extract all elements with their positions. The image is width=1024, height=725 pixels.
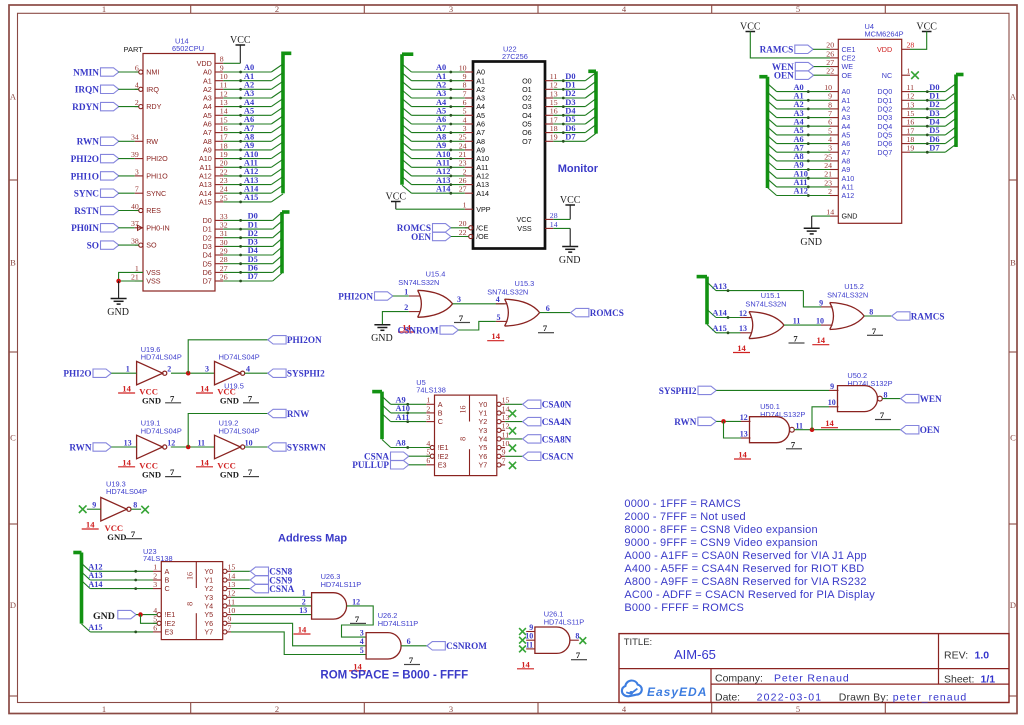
svg-text:11: 11 [796,421,804,430]
svg-text:24: 24 [220,185,228,194]
flag CSNA at U5 [364,452,430,462]
svg-text:DQ7: DQ7 [877,148,892,157]
svg-text:9: 9 [830,382,834,391]
wire A13 cpu [223,184,271,186]
svg-text:11: 11 [220,81,228,90]
svg-text:Sheet:: Sheet: [944,673,974,685]
svg-text:DQ4: DQ4 [877,122,892,131]
wire U15.1 out to U15.2 pin10 [784,324,821,326]
svg-text:U19.6: U19.6 [141,345,161,354]
svg-text:GND: GND [220,396,239,406]
wire SO [118,244,138,246]
svg-text:6: 6 [426,456,430,465]
wire D5 cpu [223,263,272,265]
svg-text:PHI2ON: PHI2ON [338,291,373,301]
wire A1 cpu [223,80,271,82]
svg-text:1.0: 1.0 [975,649,990,661]
svg-text:A400 - A5FF = CSA4N Reserved f: A400 - A5FF = CSA4N Reserved for RIOT KB… [624,563,864,575]
wire A0 u4 [768,84,777,92]
U5 outputs Y0-Y7 [505,400,574,469]
flag CSA0N out [523,400,541,408]
flag PULLUP at U5 [352,460,426,470]
wire A12 u23 [82,563,91,571]
svg-text:11: 11 [526,640,534,649]
SRAM U4 MCM6264P [824,22,914,223]
svg-text:9: 9 [819,298,823,307]
decoder U23 74LS138 [143,547,235,639]
svg-text:A15: A15 [712,324,726,333]
svg-text:6: 6 [463,98,467,107]
svg-text:38: 38 [131,237,139,246]
flag RNW out [268,409,286,417]
wire RWN to U19.1 [111,446,136,448]
svg-text:Address Map: Address Map [278,533,347,545]
svg-text:D4: D4 [565,107,576,116]
no-connect X at U5 Y3 [509,427,516,434]
wire RAMCS to CE1 [813,48,830,50]
svg-text:SYSPHI2: SYSPHI2 [287,369,325,379]
svg-text:A10: A10 [794,169,808,178]
svg-text:13: 13 [124,438,132,447]
svg-text:8: 8 [575,632,579,641]
svg-text:PHI2O: PHI2O [63,369,91,379]
svg-text:DQ5: DQ5 [877,131,892,140]
svg-text:HD74LS11P: HD74LS11P [544,618,585,627]
svg-text:A7: A7 [203,128,212,137]
bus A12-A15 at U23 [73,553,153,634]
svg-text:1: 1 [153,563,157,572]
svg-text:SO: SO [87,242,99,252]
svg-text:A4: A4 [203,102,212,111]
wire U19.1 out to U19.2 in [171,446,215,448]
wire WEN to WE [814,66,830,68]
svg-text:Y4: Y4 [479,435,488,444]
wire A11 [382,414,391,422]
wire A9 u22 [402,142,412,150]
data bus D0-D7 at U14 [223,212,289,283]
wire D0 u4 [910,91,945,93]
svg-text:74LS138: 74LS138 [416,386,446,395]
svg-text:10: 10 [459,63,467,72]
wire D7 u22 [553,140,585,142]
wire A4 u4 [768,118,777,126]
svg-text:Company:: Company: [715,672,763,684]
svg-text:A4: A4 [476,102,485,111]
wire A12 u4 [768,188,777,196]
svg-text:10: 10 [525,632,533,641]
wire D5 u22 [553,123,585,125]
svg-text:TITLE:: TITLE: [624,637,653,648]
svg-text:A0: A0 [476,68,485,77]
svg-text:3: 3 [360,629,364,638]
svg-text:A800 - A9FF = CSA8N Reserved f: A800 - A9FF = CSA8N Reserved for VIA RS2… [624,576,866,588]
CPU U14 6502CPU [131,37,228,292]
svg-text:RWN: RWN [69,442,91,452]
wire D4 cpu [223,254,272,256]
svg-text:10: 10 [228,606,236,615]
wire A11 cpu [223,166,271,168]
wire VPP [396,208,465,210]
svg-text:GND: GND [800,237,822,248]
svg-text:29: 29 [220,246,228,255]
svg-text:4: 4 [246,365,250,374]
svg-text:D0: D0 [929,83,939,92]
wire PHI1O [118,175,134,177]
bus A8-A11 at U5 [372,392,430,449]
svg-text:A2: A2 [436,81,446,90]
svg-text:40: 40 [131,202,139,211]
svg-text:9: 9 [529,623,533,632]
flag WEN out [901,394,919,402]
svg-text:14: 14 [738,450,747,460]
svg-text:3: 3 [153,580,157,589]
svg-text:CSA8N: CSA8N [542,434,572,444]
svg-text:A12: A12 [476,172,489,181]
svg-text:4: 4 [135,81,139,90]
svg-text:VDD: VDD [877,45,892,54]
svg-text:D4: D4 [248,246,259,255]
svg-text:E3: E3 [438,460,447,469]
wire A13 [707,282,716,291]
svg-text:RNW: RNW [287,409,310,419]
wire PULLUP to E3 [409,464,426,466]
svg-text:7: 7 [248,393,253,403]
svg-text:VPP: VPP [476,205,491,214]
svg-text:13: 13 [739,324,747,333]
svg-text:D5: D5 [203,259,212,268]
svg-text:21: 21 [824,170,832,179]
svg-text:8: 8 [828,100,832,109]
svg-text:3: 3 [426,413,430,422]
svg-text:7: 7 [543,323,548,333]
svg-text:SN74LS32N: SN74LS32N [398,278,439,287]
svg-text:RES: RES [146,206,161,215]
svg-text:A9: A9 [794,161,804,170]
wire SYSPHI2 to pin9 [716,389,829,391]
wire CSNROM to pin5 [458,321,496,330]
wire A13 to U15.2 pin9 [803,291,821,307]
svg-text:26: 26 [826,49,834,58]
wire A14 cpu [223,192,271,194]
data bus at U4 [910,75,964,154]
svg-text:B: B [10,258,16,268]
svg-text:D7: D7 [929,143,939,152]
svg-text:7: 7 [459,313,464,323]
wire A15 [707,324,716,333]
junction GND U23 [138,612,143,617]
wire junction to PHI2ON flag [188,340,268,373]
wire A15 u23 [82,624,91,632]
wire NMIN [118,71,138,73]
svg-text:A12: A12 [244,167,258,176]
wire A14 u23 [82,581,91,589]
GND at U15.4 pin2 [371,312,409,345]
svg-text:1: 1 [102,704,106,714]
svg-text:15: 15 [502,396,510,405]
svg-text:OEN: OEN [920,425,940,435]
svg-text:PH0-IN: PH0-IN [146,223,170,232]
flag ROMCS at U22 [397,223,469,233]
wire RWN to pin13 [724,421,742,438]
svg-text:14: 14 [86,520,95,530]
svg-text:GND: GND [142,469,161,479]
svg-text:REV:: REV: [944,649,968,661]
VCC flag at U14 VDD [223,35,251,63]
svg-text:SYSPHI2: SYSPHI2 [659,386,697,396]
svg-text:IRQN: IRQN [75,86,100,96]
wire OEN to OE [814,74,830,76]
svg-text:13: 13 [228,580,236,589]
svg-text:14: 14 [737,343,746,353]
svg-text:PHI2ON: PHI2ON [287,335,322,345]
wire junction to RNW flag [188,414,268,448]
svg-text:14: 14 [122,457,131,467]
flag RWN in at U50.1 [674,417,741,438]
svg-text:14: 14 [122,384,131,394]
wire Y4 [505,438,522,440]
svg-text:11: 11 [197,438,205,447]
svg-text:A5: A5 [842,131,851,140]
svg-text:7: 7 [576,650,581,660]
svg-text:D5: D5 [929,126,939,135]
GND at U14 VSS [107,272,143,318]
svg-text:GND: GND [559,255,581,266]
svg-text:ROM SPACE = B000 - FFFF: ROM SPACE = B000 - FFFF [320,670,468,682]
inverter U19.5 HD74LS04P [196,353,260,406]
svg-text:SYSRWN: SYSRWN [287,442,326,452]
flag WEN at U4 [772,62,830,72]
wire U19.3 output stub [131,508,141,510]
svg-text:4: 4 [153,606,157,615]
svg-text:6: 6 [546,304,550,313]
svg-text:NMIN: NMIN [73,68,99,78]
svg-text:31: 31 [220,229,228,238]
svg-text:4: 4 [360,637,364,646]
nand U50.2 HD74LS132P [821,371,893,428]
flag RWN at U19.1 [69,442,136,452]
svg-text:10: 10 [824,83,832,92]
svg-text:D4: D4 [929,117,940,126]
svg-text:14: 14 [491,331,500,341]
svg-text:NMI: NMI [146,68,159,77]
svg-text:E3: E3 [165,628,174,637]
svg-text:C: C [1010,433,1016,443]
svg-text:A9: A9 [842,165,851,174]
svg-text:D7: D7 [203,277,212,286]
svg-text:A000 - A1FF = CSA0N Reserved f: A000 - A1FF = CSA0N Reserved for VIA J1 … [624,550,866,562]
wire A4 u22 [402,99,412,107]
svg-text:18: 18 [550,124,558,133]
svg-text:C: C [438,417,443,426]
flag CSNROM out [427,642,445,650]
svg-text:13: 13 [299,606,307,615]
wire A6 cpu [223,123,271,125]
svg-text:A12: A12 [436,167,450,176]
wire A9 cpu [223,149,271,151]
svg-text:74LS138: 74LS138 [143,554,173,563]
svg-text:2: 2 [404,303,408,312]
svg-text:1: 1 [404,287,408,296]
svg-text:U19.2: U19.2 [219,419,239,428]
svg-text:HD74LS04P: HD74LS04P [106,487,147,496]
svg-text:A5: A5 [436,107,446,116]
svg-text:6502CPU: 6502CPU [172,44,204,53]
svg-text:VSS: VSS [517,224,532,233]
or-gate U15.4 SN74LS32N [398,270,470,333]
svg-text:DQ2: DQ2 [877,105,892,114]
wire A0 u22 [402,64,412,72]
svg-text:27C256: 27C256 [502,52,528,61]
svg-text:A5: A5 [203,111,212,120]
wire VSS1 [119,272,143,281]
svg-text:A14: A14 [712,309,727,318]
svg-text:A: A [165,567,170,576]
svg-text:MCM6264P: MCM6264P [865,30,904,39]
svg-text:2000 - 7FFF = Not used: 2000 - 7FFF = Not used [624,511,746,523]
svg-text:16: 16 [185,572,194,580]
svg-text:3: 3 [449,704,453,714]
svg-text:3: 3 [457,295,461,304]
svg-text:19: 19 [907,144,915,153]
inverter U19.2 HD74LS04P [196,419,260,480]
ground symbol U15.4 [374,324,390,326]
wire Y0 [505,403,522,405]
wire OEN to /OE [451,236,469,238]
input flags NMIN IRQN RDYN RWN PHI2O PHI1O SYNC RSTN PH0IN SO [71,68,139,252]
svg-text:A0: A0 [794,83,804,92]
svg-text:D7: D7 [565,133,575,142]
svg-text:A7: A7 [436,124,446,133]
svg-text:22: 22 [459,228,467,237]
svg-text:10: 10 [816,317,824,326]
wire IRQN [118,88,138,90]
svg-text:3: 3 [828,144,832,153]
wire D3 u22 [553,106,585,108]
svg-text:Y7: Y7 [204,628,213,637]
svg-text:A7: A7 [244,124,254,133]
svg-text:Y0: Y0 [479,400,488,409]
svg-text:28: 28 [907,41,915,50]
flag PHI2ON out [268,336,286,344]
svg-text:PHI1O: PHI1O [146,172,168,181]
wire Y2 [505,421,522,423]
wire Y7 to U26.2 pin5 [231,632,366,655]
svg-text:7: 7 [791,439,796,449]
ground symbol U14 [111,298,127,300]
svg-text:33: 33 [220,212,228,221]
svg-text:A9: A9 [436,141,446,150]
svg-text:A14: A14 [88,580,103,589]
svg-text:RW: RW [146,137,158,146]
svg-text:/OE: /OE [476,232,489,241]
wire A15 cpu [223,201,271,203]
VCC flag upper-right of U4 [910,22,937,50]
svg-text:26: 26 [220,272,228,281]
wire D1 u4 [910,99,945,101]
svg-text:A2: A2 [244,81,254,90]
wire A12 u22 [402,168,412,176]
svg-text:VCC: VCC [517,215,532,224]
svg-text:A10: A10 [244,150,258,159]
svg-text:7: 7 [131,529,136,539]
svg-text:15: 15 [228,563,236,572]
svg-text:HD74LS11P: HD74LS11P [321,580,362,589]
svg-text:GND: GND [371,333,393,344]
wire A8 [382,440,391,448]
svg-text:8: 8 [185,602,194,606]
wire A13 u22 [402,177,412,185]
flag CSACN out [523,452,541,460]
wire to ground [118,281,120,299]
svg-text:PHI2O: PHI2O [146,154,168,163]
svg-text:27: 27 [459,185,467,194]
flag SYSRWN out [268,443,286,451]
svg-text:A12: A12 [199,172,212,181]
svg-text:16: 16 [907,118,915,127]
svg-text:VDD: VDD [197,59,212,68]
svg-text:A15: A15 [88,623,102,632]
svg-text:14: 14 [298,625,307,635]
wire U50.1 out to OEN [794,429,900,431]
wire A10 [382,405,391,413]
svg-text:GND: GND [107,532,126,542]
wire D7 u4 [910,151,945,153]
svg-text:ROMCS: ROMCS [590,308,624,318]
svg-text:A10: A10 [436,150,450,159]
svg-text:5: 5 [497,313,501,322]
wire U26.3 out to U26.2 pin3 [342,606,374,637]
svg-text:9: 9 [92,501,96,510]
svg-text:14: 14 [817,335,826,345]
wire A11 u22 [402,159,412,167]
svg-text:A15: A15 [244,193,258,202]
wire Y1 u23 [231,579,250,581]
svg-text:5: 5 [828,126,832,135]
svg-text:13: 13 [502,413,510,422]
wire A1 u22 [402,73,412,81]
svg-text:A2: A2 [203,85,212,94]
flag OEN at U4 [774,71,830,81]
svg-text:10: 10 [828,398,836,407]
wire Y5 to U26.3 pin13 [231,614,312,616]
svg-text:10: 10 [245,438,253,447]
wire A6 u22 [402,116,412,124]
svg-text:12: 12 [739,309,747,318]
svg-text:2: 2 [275,704,279,714]
junction PHI2ON [186,371,191,376]
wire D4 u4 [910,125,945,127]
address bus A0-A15 at U14 [223,53,291,203]
svg-text:B: B [438,409,443,418]
svg-text:7: 7 [355,614,360,624]
svg-text:SN74LS32N: SN74LS32N [827,290,868,299]
svg-text:7: 7 [248,467,253,477]
ground symbol U4 [804,227,820,229]
wire A0 cpu [223,71,271,73]
data bus at U22 [553,71,596,142]
svg-text:D3: D3 [565,98,575,107]
svg-text:7: 7 [502,456,506,465]
svg-text:HD74LS132P: HD74LS132P [760,410,805,419]
GND at U4 pin14 [800,216,830,248]
wire U19.6 out to U19.5 in [171,372,215,374]
svg-text:22: 22 [220,167,228,176]
svg-text:8: 8 [133,501,137,510]
svg-text:13: 13 [740,429,748,438]
wire D6 u22 [553,132,585,134]
svg-text:6: 6 [828,118,832,127]
junction VSS [116,279,121,284]
